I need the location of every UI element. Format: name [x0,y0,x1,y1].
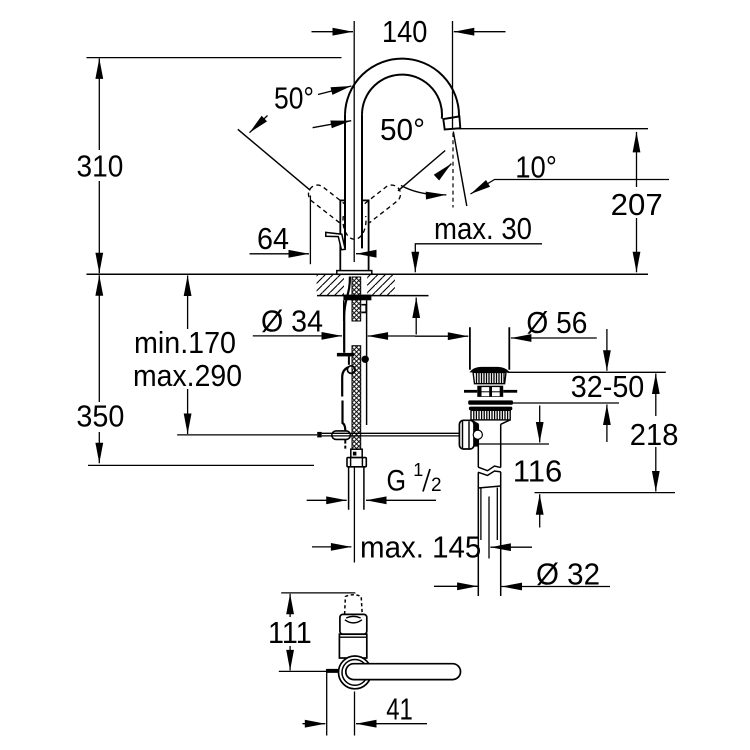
riser pipe sides [345,115,362,249]
centerline / 140 left extension [353,21,355,262]
116/218 bottom line [535,492,676,494]
svg-text:207: 207 [611,187,663,222]
rod T-bar [337,353,354,357]
nozzle [443,116,460,129]
G1/2 nut [347,458,366,467]
dim Ø32 arrows [434,585,478,587]
Ø34 left ext [343,321,345,346]
svg-text:50°: 50° [274,80,314,115]
svg-text:140: 140 [382,14,427,49]
shank right edge [366,300,368,425]
linkage nut [459,420,474,449]
svg-text:2: 2 [431,475,442,496]
pipe mask [346,114,361,248]
50° leader a [318,86,351,95]
spout gooseneck outer [345,59,459,117]
dim min/max line [187,276,189,435]
side pins [464,390,477,393]
tube joint line [478,486,500,488]
10° leader [471,180,670,195]
counter top line [87,273,649,275]
svg-text:64: 64 [257,221,289,256]
rod stub [348,356,350,364]
extension line top of spout [87,57,342,59]
collar [340,614,367,634]
svg-text:350: 350 [76,399,124,434]
linkage joint black [474,423,479,447]
rod eyelet ring [347,366,355,374]
counter hatch left [317,275,344,296]
drain top tube [470,327,509,369]
handle ring outer [339,656,372,689]
dim 41 arrows [303,723,326,725]
pull rod knob [317,432,322,438]
handle ring inner [342,660,368,686]
svg-text:32-50: 32-50 [571,369,645,404]
dim 64 extension [309,196,311,265]
supply pipe [349,467,364,510]
116 top line [478,443,549,445]
111 top ext [281,592,355,594]
hose end fitting [351,449,362,457]
pipe centerline [353,467,355,563]
111 bottom ext [279,670,326,672]
dim G1/2 arrows [307,499,347,501]
spout gooseneck inner [362,75,442,119]
water stream [453,132,467,207]
dim 310 line [98,58,100,273]
drain tube upper [478,424,500,467]
rod eyelet slot [332,431,351,440]
min/max ref line [177,434,317,436]
svg-text:Ø 56: Ø 56 [526,305,587,340]
dim 64 arrows [250,253,310,255]
svg-text:111: 111 [268,615,312,650]
set screw nub [326,669,339,673]
pull rod upper curve [344,277,350,353]
svg-text:min.170: min.170 [134,325,236,360]
collar inner arc [345,616,362,623]
angle arc 50 inner [401,186,446,195]
50° leader b [313,121,352,128]
side body [339,634,366,658]
svg-text:50°: 50° [380,112,425,147]
lever arm [346,664,461,680]
svg-text:41: 41 [386,691,413,726]
rod lower stub [344,439,346,448]
dim 207 line [636,132,638,272]
plug dome [469,367,509,373]
svg-text:max. 30: max. 30 [434,211,532,246]
svg-text:G: G [387,465,407,498]
cage band [477,386,503,397]
dim 350 line [98,275,100,463]
41 left ext [326,672,328,736]
knurled ring bottom [471,410,510,420]
svg-text:max. 145: max. 145 [360,529,481,564]
ghost base ellipse [343,216,366,239]
dim Ø34 arrows [253,335,342,337]
drain tube lower [478,472,500,596]
shank left edge [343,300,345,321]
svg-text:max.290: max.290 [133,358,242,393]
aerator joint [443,116,460,119]
hose clip [361,305,366,313]
dim 218 line [655,374,657,492]
swivel diagonal right [398,151,445,191]
svg-text:310: 310 [77,149,124,184]
max145 arrows [312,546,351,548]
knurled ring top [473,372,506,383]
mounting locknut [343,295,371,301]
body joint line [339,636,366,638]
flange ring 1 [468,400,513,404]
svg-text:Ø 34: Ø 34 [261,303,323,338]
counter hatch right [367,275,395,296]
body cylinder [340,200,368,270]
braided hose upper [352,277,361,321]
svg-text:218: 218 [630,417,679,452]
116 arrows [539,406,541,443]
fitting square [353,452,357,456]
max145 right ext [488,497,490,559]
spout socket dashed [345,595,363,614]
207 top extension [459,128,648,130]
tube inner walls [481,488,497,541]
base flange [337,271,372,275]
32-50 lower line [510,402,619,404]
max30 leader [415,244,542,272]
angle arrow to plumb [440,164,452,179]
pipe break [478,466,501,475]
hose ball [362,356,369,363]
ghost spout left (swivel range) [305,181,351,222]
dim 140 arrows [312,31,354,33]
swivel diagonal left [238,129,310,190]
counter bottom line [317,295,429,297]
50° leader c [250,116,268,133]
41 right ext [354,692,356,736]
32-50 arrows [606,329,608,371]
32-50 upper line [507,371,665,373]
flange ring 2 [469,407,512,411]
dim 111 line [289,594,291,671]
horizontal pull rod [322,433,460,436]
svg-text:116: 116 [513,454,563,489]
ball joint [473,430,482,439]
svg-text:1: 1 [413,460,423,480]
plumb line dashed [452,133,454,208]
dim Ø56 arrows [415,335,468,337]
max30 lower arrow [415,298,417,335]
140 right extension [452,21,454,129]
pull rod lower [342,367,348,430]
350 bottom ext [88,464,314,466]
braided hose lower [352,346,361,450]
shoulders [471,420,510,424]
svg-text:Ø 32: Ø 32 [536,557,600,592]
lever handle [326,232,345,249]
ghost spout right (swivel range) [358,181,404,222]
